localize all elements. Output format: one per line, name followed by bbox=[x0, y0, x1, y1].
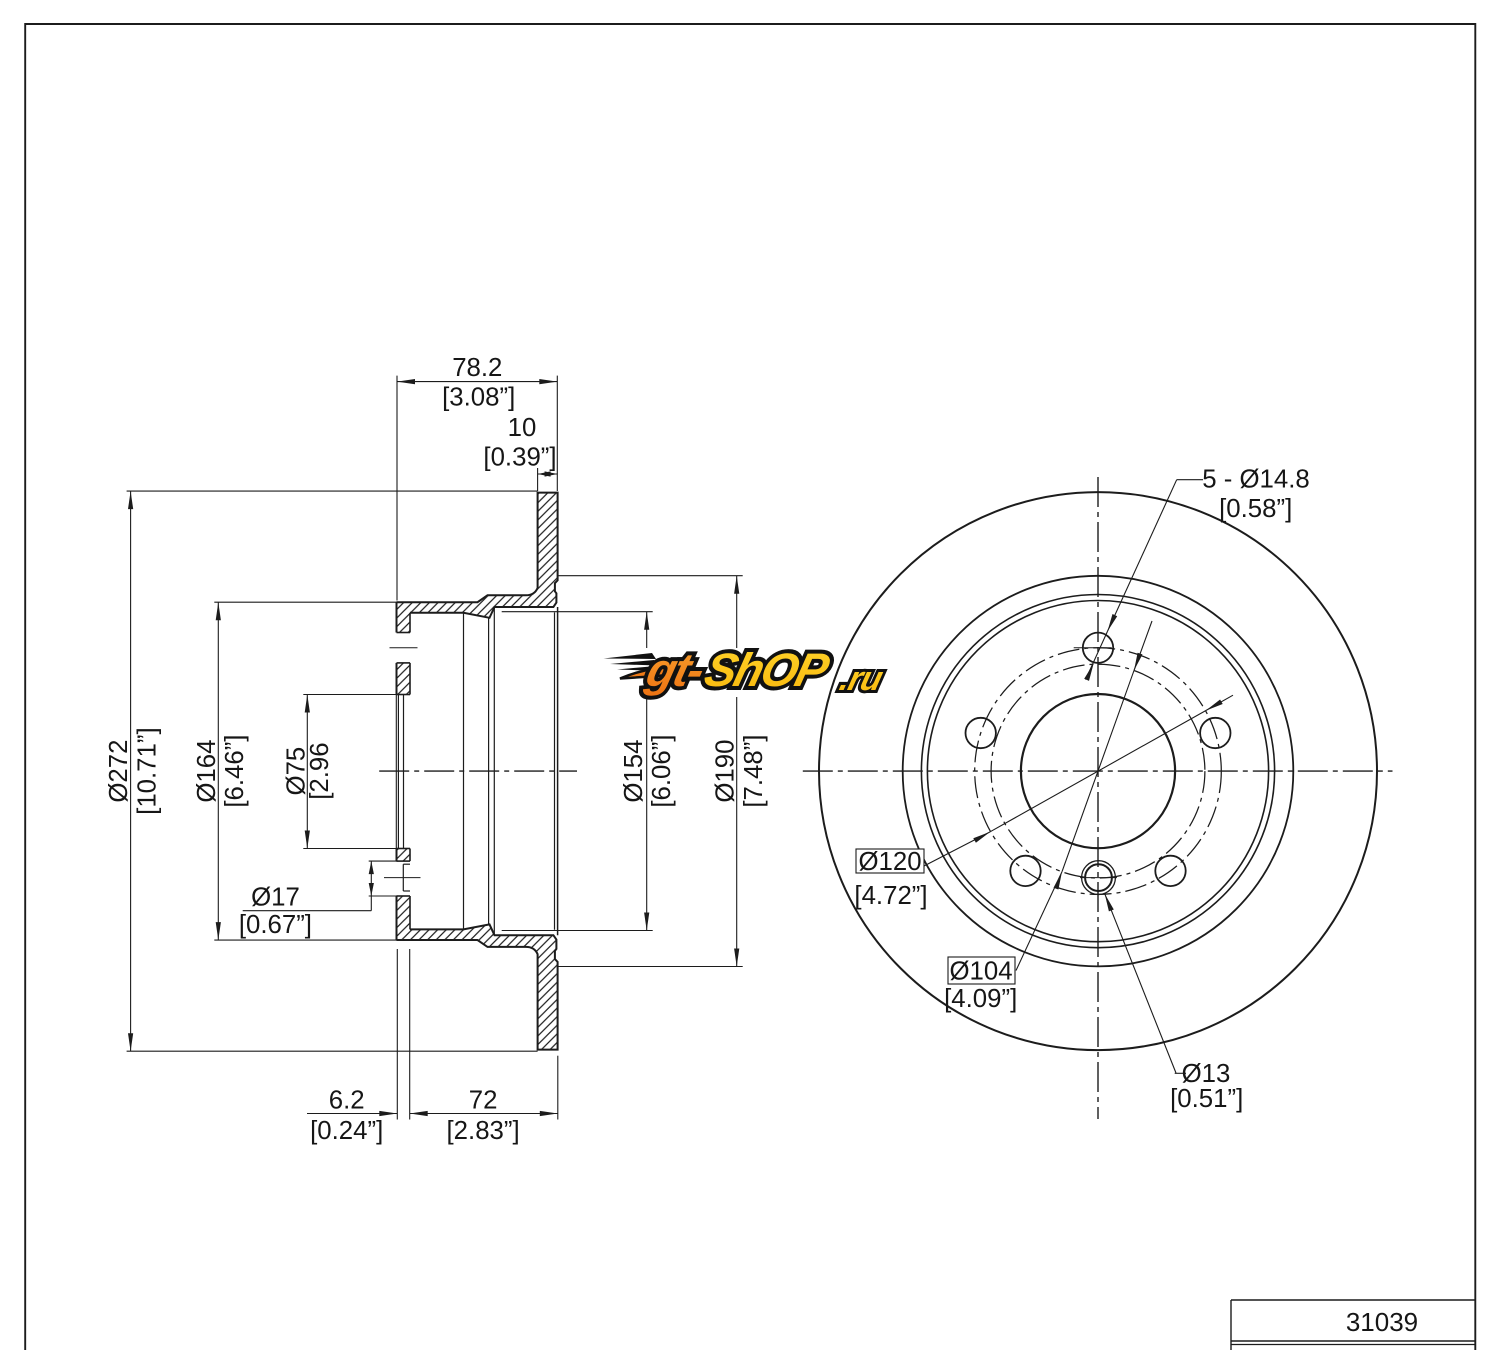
svg-text:72: 72 bbox=[469, 1087, 498, 1115]
svg-text:[2.96: [2.96 bbox=[306, 742, 334, 799]
svg-text:Ø13: Ø13 bbox=[1182, 1060, 1231, 1088]
section outline bottom bbox=[397, 924, 558, 1049]
O13 hole horizontal tick bbox=[1080, 877, 1117, 879]
leader O120 bbox=[924, 832, 990, 866]
dim O272 bbox=[130, 491, 132, 1051]
flange hatch segments bbox=[397, 663, 411, 695]
svg-text:[4.72”]: [4.72”] bbox=[854, 882, 927, 910]
svg-text:[3.08”]: [3.08”] bbox=[442, 384, 515, 412]
O13 hole with chamfer bbox=[1085, 864, 1112, 891]
circle chamfer bbox=[921, 595, 1274, 948]
leader 5-O14.8 (diameter across top hole) bbox=[1107, 480, 1176, 632]
five bolt holes O14.8 bbox=[1083, 633, 1113, 663]
svg-text:[0.24”]: [0.24”] bbox=[310, 1117, 383, 1145]
dim O190 bbox=[736, 576, 738, 967]
front view outer circle O272 bbox=[819, 492, 1377, 1050]
flange right face segments bbox=[409, 613, 411, 633]
svg-text:[7.48”]: [7.48”] bbox=[740, 735, 768, 808]
section horizontal centerline bbox=[379, 770, 577, 772]
svg-text:Ø17: Ø17 bbox=[251, 884, 300, 912]
O17 hole centerline tick bbox=[384, 877, 421, 879]
top hole horizontal tick bbox=[1074, 647, 1112, 649]
dim 72 bbox=[410, 1113, 558, 1115]
hub bore O75 bbox=[1021, 694, 1175, 848]
bolt hole edges in flange bbox=[397, 632, 411, 634]
section view hatched body (top half) bbox=[397, 493, 558, 633]
title block bbox=[1231, 1299, 1475, 1301]
dim O17 bbox=[370, 861, 372, 911]
section outline top bbox=[397, 493, 558, 618]
flange left face segments bbox=[396, 602, 398, 632]
svg-text:78.2: 78.2 bbox=[452, 354, 502, 382]
svg-text:[2.83”]: [2.83”] bbox=[447, 1117, 520, 1145]
svg-text:Ø164: Ø164 bbox=[193, 740, 221, 803]
dim 6.2 bbox=[307, 1113, 397, 1115]
bore chamfer lines bbox=[395, 695, 397, 849]
dim O75 bbox=[306, 695, 308, 849]
dim 78.2 bbox=[397, 381, 557, 383]
leader O104 bbox=[1016, 872, 1062, 971]
svg-text:ShOP: ShOP bbox=[699, 645, 834, 697]
svg-text:[4.09”]: [4.09”] bbox=[944, 985, 1017, 1013]
svg-text:5 - Ø14.8: 5 - Ø14.8 bbox=[1202, 466, 1310, 494]
gt-shop.ru watermark logo bbox=[601, 645, 891, 698]
drum interior visible edges bbox=[463, 613, 465, 930]
svg-text:Ø190: Ø190 bbox=[712, 740, 740, 803]
svg-text:[6.06”]: [6.06”] bbox=[648, 735, 676, 808]
svg-text:[10.71”]: [10.71”] bbox=[134, 727, 162, 814]
svg-text:[0.51”]: [0.51”] bbox=[1170, 1085, 1243, 1113]
circle O164 bbox=[927, 601, 1268, 942]
svg-text:[0.67”]: [0.67”] bbox=[239, 911, 312, 939]
front view horizontal centerline bbox=[803, 770, 1393, 772]
svg-text:[0.58”]: [0.58”] bbox=[1219, 495, 1292, 523]
svg-text:[0.39”]: [0.39”] bbox=[483, 444, 556, 472]
front view vertical centerline bbox=[1097, 477, 1099, 1119]
dim O154 bbox=[646, 612, 648, 931]
svg-text:Ø120: Ø120 bbox=[858, 848, 921, 876]
O13 inner hole lines at O17 hole bbox=[402, 864, 404, 891]
circle O104 (dash-dot) bbox=[991, 664, 1205, 878]
svg-text:6.2: 6.2 bbox=[329, 1087, 365, 1115]
section view hatched body (bottom half) bbox=[397, 896, 558, 1050]
O17 hole edges bbox=[397, 860, 411, 862]
svg-text:31039: 31039 bbox=[1346, 1307, 1418, 1337]
bolt circle O120 (dash-dot) bbox=[975, 648, 1222, 895]
center bore O75 edges bbox=[397, 694, 411, 696]
svg-text:[6.46”]: [6.46”] bbox=[221, 735, 249, 808]
circle O190 bbox=[903, 576, 1294, 967]
bolt hole centerline tick bbox=[390, 647, 418, 649]
svg-text:Ø104: Ø104 bbox=[949, 958, 1012, 986]
svg-text:Ø154: Ø154 bbox=[620, 740, 648, 803]
svg-text:10: 10 bbox=[508, 414, 537, 442]
dim 10 bbox=[538, 473, 558, 475]
leader O13 bbox=[1105, 894, 1176, 1073]
svg-text:Ø272: Ø272 bbox=[105, 740, 133, 803]
dim O164 bbox=[217, 602, 219, 940]
